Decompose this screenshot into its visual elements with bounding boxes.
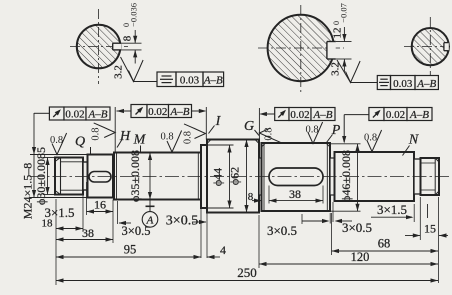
centerline horizontal of right circle <box>404 46 452 48</box>
svg-text:A–B: A–B <box>416 78 436 90</box>
thread chamfer line left <box>60 158 62 195</box>
svg-text:15: 15 <box>424 222 436 236</box>
keyway width dim 8 with tol (left circle) <box>121 42 141 44</box>
svg-text:P: P <box>331 123 341 138</box>
keyway slot on phi46 (38 long) <box>269 168 323 186</box>
svg-text:ϕ62: ϕ62 <box>228 167 242 185</box>
dim 18 (thread length) <box>55 199 57 285</box>
centerline vertical of right circle <box>429 17 431 76</box>
dim phi46 line with arrows <box>357 144 359 211</box>
chamfer line phi35 left <box>116 153 118 200</box>
shaft section: phi44 collar <box>201 145 207 208</box>
svg-text:18: 18 <box>42 218 54 230</box>
frame3 left arrow to extension line <box>261 113 275 115</box>
dim 38 (keyway length) <box>322 186 324 204</box>
dim phi30 line with arrows <box>33 113 35 198</box>
dim phi46+-0.008 extension lines <box>331 143 361 145</box>
svg-text:12: 12 <box>332 28 344 39</box>
svg-text:0.8: 0.8 <box>183 131 194 144</box>
dim 95 <box>200 202 202 258</box>
svg-text:0.02: 0.02 <box>386 109 405 121</box>
svg-text:Q: Q <box>75 135 85 150</box>
svg-text:0.8: 0.8 <box>364 133 377 144</box>
svg-text:M24×1.5–8: M24×1.5–8 <box>21 163 35 219</box>
svg-text:M: M <box>133 133 147 148</box>
dim M24 line with arrows <box>47 158 49 195</box>
shaft section: phi30 with keyway <box>88 155 114 198</box>
svg-text:0.8: 0.8 <box>50 135 63 146</box>
roughness 0.8 rotated at phi62 right shoulder (mirrored) <box>259 128 281 143</box>
extension line (phi62 left face) <box>205 107 207 140</box>
dim phi44 line with arrows <box>229 145 231 208</box>
svg-text:0.03: 0.03 <box>180 75 200 87</box>
dim 8 (keyway offset) <box>268 186 270 204</box>
roughness 0.8 on right journal <box>367 130 382 152</box>
svg-text:0.8: 0.8 <box>264 127 275 140</box>
dim M24x1.5-8: extension lines <box>43 157 56 159</box>
svg-text:A–B: A–B <box>409 109 429 121</box>
svg-text:16: 16 <box>94 198 106 212</box>
svg-text:250: 250 <box>237 265 257 280</box>
shaft section: phi35 bearing journal <box>114 153 201 200</box>
shaft section: phi46 with keyway (38 long) <box>262 143 331 211</box>
shaft section: phi62 collar <box>207 140 259 213</box>
roughness 3.2 at left circle <box>129 60 144 82</box>
centerline vertical of left circle <box>98 9 100 84</box>
section view circle (phi30 journal) <box>77 25 121 69</box>
svg-text:3×0.5: 3×0.5 <box>122 224 151 238</box>
thread relief groove right 3x1.5 <box>414 159 421 194</box>
svg-text:0.8: 0.8 <box>160 132 173 143</box>
svg-text:68: 68 <box>378 237 391 251</box>
leader of frame 4 <box>344 114 369 116</box>
svg-text:4: 4 <box>220 243 226 257</box>
shaft centerline <box>30 176 449 178</box>
right thread chamfer line <box>434 158 436 195</box>
small tick near right thread <box>427 204 429 218</box>
section view circle (phi46 keyway journal) <box>268 15 334 81</box>
datum A symbol <box>146 205 155 207</box>
svg-text:3×1.5: 3×1.5 <box>377 202 407 217</box>
svg-text:0.03: 0.03 <box>393 78 413 90</box>
runout frame 2 (phi35 journal) <box>131 105 147 118</box>
runout frame 4 (right journal) <box>369 108 384 121</box>
label 3x0.5 second (phi35 right groove) <box>206 210 208 258</box>
svg-text:ϕ30±0.0085: ϕ30±0.0085 <box>34 147 48 205</box>
dim phi44 (collar) extension lines <box>202 144 234 146</box>
centerline vertical of middle circle <box>300 5 302 92</box>
keyway slot of middle circle <box>327 42 336 60</box>
feature control frame: symmetry 0.03 A-B (middle circle) <box>377 76 390 90</box>
svg-text:G: G <box>244 119 254 134</box>
svg-text:0: 0 <box>332 21 341 25</box>
label 3x0.5 fourth (right journal left groove) <box>332 202 334 222</box>
svg-text:38: 38 <box>82 226 94 240</box>
dim phi35+-0.008 line <box>149 153 151 207</box>
dim 120 <box>258 215 260 268</box>
svg-text:0: 0 <box>122 23 131 27</box>
leader from keyway to frame (left) <box>121 57 134 82</box>
groove line at phi35 right (3x0.5) <box>197 153 199 200</box>
roughness 0.8 on phi35 <box>167 131 182 153</box>
label 3x0.5 first (phi35 left groove) <box>117 201 119 224</box>
dim 38 (phi30 end) <box>112 215 114 243</box>
svg-text:ϕ46±0.008: ϕ46±0.008 <box>339 150 353 202</box>
dim 250 <box>56 280 438 282</box>
frame2 right arrow to extension line <box>192 110 206 112</box>
svg-text:95: 95 <box>124 243 137 257</box>
svg-text:3×0.5: 3×0.5 <box>342 220 372 235</box>
runout frame 1 (phi30) <box>49 107 64 120</box>
leader from keyway to frame (middle) <box>337 60 351 83</box>
extension line H (phi35 left) <box>114 107 116 152</box>
shaft section: M24x1.5 thread end <box>55 158 83 195</box>
thread minor diameter lines <box>61 161 84 163</box>
runout frame 3 (phi46 keyway section) <box>275 108 289 121</box>
svg-text:A–B: A–B <box>170 106 190 118</box>
keyway slot on phi30 (16 long) <box>89 172 111 183</box>
dim 68 <box>331 213 333 255</box>
centerline horizontal of middle circle <box>258 47 344 49</box>
svg-text:3×0.5: 3×0.5 <box>166 214 198 229</box>
roughness 0.8 rotated at phi62 left shoulder <box>184 124 206 139</box>
dim phi62 line with arrows <box>246 140 248 213</box>
groove between phi62 and phi46 keyway section <box>259 158 262 195</box>
centerline horizontal of left circle <box>70 46 128 48</box>
shaft section: right thread end <box>421 158 440 195</box>
svg-text:3.2: 3.2 <box>113 65 125 79</box>
roughness 3.2 at middle circle <box>346 61 361 83</box>
right thread minor diameter lines <box>421 162 436 164</box>
svg-text:8: 8 <box>122 35 134 41</box>
roughness 0.8 on phi30 <box>52 133 67 155</box>
svg-text:A–B: A–B <box>203 75 223 87</box>
roughness 0.8 rotated at phi35 left shoulder <box>94 123 116 138</box>
svg-text:38: 38 <box>289 187 301 201</box>
svg-text:N: N <box>408 133 419 148</box>
svg-text:0.02: 0.02 <box>148 106 167 118</box>
svg-text:0.02: 0.02 <box>65 109 84 121</box>
frame2 left arrow to extension line <box>117 110 132 112</box>
groove between keyway section and right journal <box>330 158 335 195</box>
svg-text:A–B: A–B <box>88 109 108 121</box>
label 3x0.5 third (phi62 right groove) <box>301 214 303 224</box>
keyway width dim 12 with tol (middle circle) <box>336 41 352 43</box>
dim 15 (right thread) <box>419 197 421 240</box>
thread relief groove 3x1.5 <box>83 162 88 190</box>
keyway slot of right circle <box>444 43 449 51</box>
svg-text:−0.07: −0.07 <box>339 3 349 23</box>
svg-text:8: 8 <box>248 191 254 203</box>
leader of frame 1 down to phi30 dim <box>34 112 49 114</box>
svg-text:3×0.5: 3×0.5 <box>267 223 297 238</box>
roughness 0.8 on phi46 keyway section <box>308 122 323 144</box>
shaft section: right bearing journal <box>335 152 415 201</box>
svg-text:ϕ35±0.008: ϕ35±0.008 <box>128 150 142 202</box>
dim 16 (phi30 keyway length) <box>86 182 88 215</box>
svg-text:120: 120 <box>351 250 370 264</box>
extension line (phi62 right face) <box>258 108 260 141</box>
dim phi30 +-0.0085: extension lines <box>30 154 88 156</box>
feature control frame: symmetry 0.03 A-B (left circle) <box>157 72 176 87</box>
keyway slot of left circle <box>113 43 121 50</box>
dim 4 (collar width) <box>207 256 220 258</box>
svg-text:0.02: 0.02 <box>290 109 309 121</box>
svg-text:0.8: 0.8 <box>305 125 318 136</box>
svg-text:A–B: A–B <box>313 109 333 121</box>
svg-text:ϕ44: ϕ44 <box>211 168 225 186</box>
section view circle (right end) <box>412 28 449 65</box>
svg-text:0.8: 0.8 <box>91 127 102 140</box>
